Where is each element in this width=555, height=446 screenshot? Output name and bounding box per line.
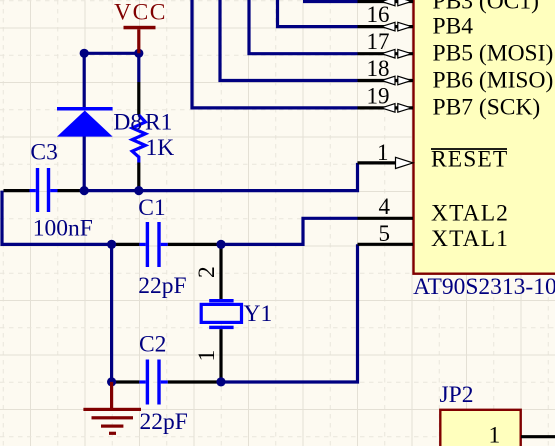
svg-text:17: 17 bbox=[367, 29, 390, 54]
svg-text:16: 16 bbox=[367, 2, 390, 27]
svg-text:AT90S2313-10PC: AT90S2313-10PC bbox=[413, 274, 555, 300]
svg-text:VCC: VCC bbox=[114, 0, 167, 26]
svg-text:JP2: JP2 bbox=[440, 382, 474, 408]
svg-text:22pF: 22pF bbox=[140, 409, 188, 435]
svg-text:5: 5 bbox=[379, 221, 391, 246]
svg-text:2: 2 bbox=[194, 266, 220, 278]
svg-text:1: 1 bbox=[377, 140, 389, 165]
svg-text:PB6 (MISO): PB6 (MISO) bbox=[433, 67, 554, 93]
svg-text:18: 18 bbox=[367, 56, 390, 81]
svg-text:PB7 (SCK): PB7 (SCK) bbox=[433, 95, 541, 121]
svg-text:19: 19 bbox=[367, 83, 390, 108]
svg-text:C2: C2 bbox=[139, 332, 166, 358]
svg-text:Y1: Y1 bbox=[244, 301, 273, 327]
svg-text:R1: R1 bbox=[145, 109, 172, 135]
svg-text:D8: D8 bbox=[113, 109, 142, 135]
svg-text:1: 1 bbox=[489, 423, 501, 446]
svg-text:RESET: RESET bbox=[431, 147, 508, 173]
svg-text:PB4: PB4 bbox=[433, 13, 474, 39]
svg-text:XTAL1: XTAL1 bbox=[431, 226, 509, 252]
svg-text:C3: C3 bbox=[30, 140, 57, 166]
svg-text:1K: 1K bbox=[146, 135, 175, 161]
svg-text:PB3 (OC1): PB3 (OC1) bbox=[433, 0, 539, 14]
svg-text:22pF: 22pF bbox=[138, 273, 186, 299]
svg-text:4: 4 bbox=[379, 194, 391, 219]
svg-text:100nF: 100nF bbox=[33, 215, 93, 241]
svg-text:XTAL2: XTAL2 bbox=[431, 201, 509, 227]
svg-text:1: 1 bbox=[194, 350, 220, 362]
svg-text:PB5 (MOSI): PB5 (MOSI) bbox=[433, 41, 554, 67]
svg-text:C1: C1 bbox=[138, 195, 165, 221]
